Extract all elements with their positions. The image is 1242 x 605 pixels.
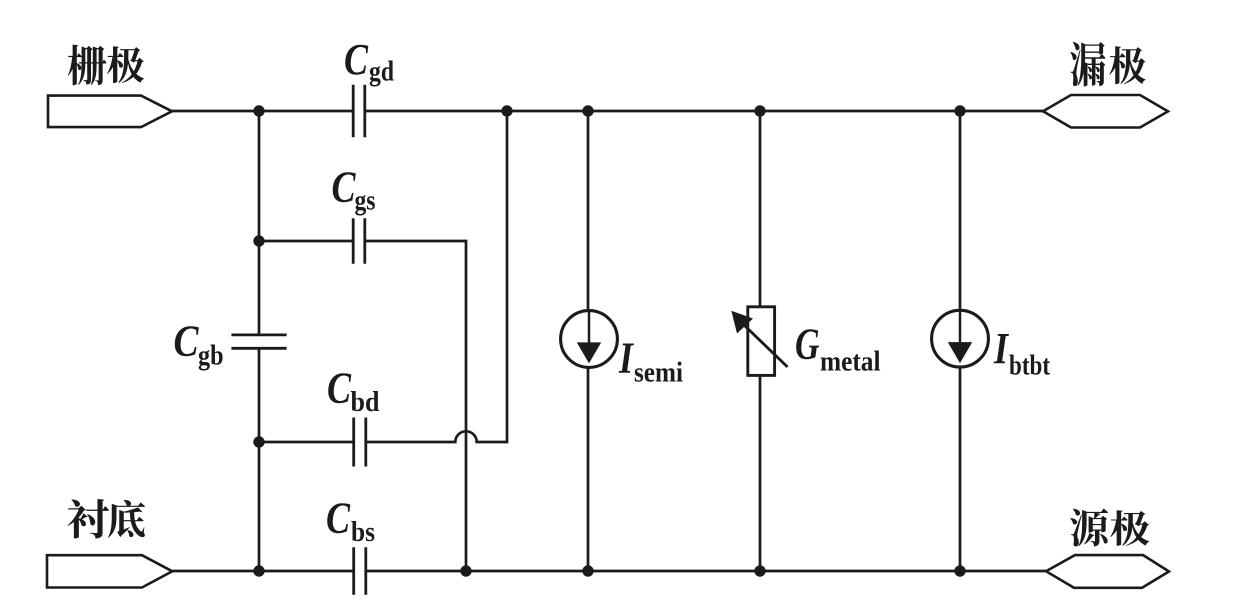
svg-text:C: C: [332, 163, 357, 212]
junction dot top rail / I_btbt: [954, 105, 965, 116]
label I_btbt: [993, 324, 1050, 382]
junction dot top rail / left branch: [253, 105, 264, 116]
wire left branch x=259 (gate to substrate): [258, 111, 261, 571]
junction dot bottom rail / G_metal: [754, 565, 765, 576]
capacitor C_gd: [353, 85, 365, 138]
label 栅极 (gate): [68, 45, 144, 86]
label C_bs: [326, 494, 375, 549]
svg-text:bs: bs: [351, 517, 375, 548]
svg-text:I: I: [993, 324, 1009, 373]
wire G_metal branch x=760: [759, 111, 762, 571]
capacitor C_bs: [354, 547, 366, 595]
svg-text:gb: gb: [198, 341, 224, 372]
terminal pin 源极 (source): [1046, 555, 1169, 588]
resistor G_metal (variable, box with arrow): [731, 307, 787, 376]
junction dot top rail / x=507 riser: [501, 105, 512, 116]
wire I_semi branch x=588: [587, 111, 590, 571]
wire C_bd branch y=442 with crossover hop, riser x=507: [259, 111, 507, 442]
terminal pin 衬底 (substrate): [47, 555, 172, 587]
label C_gb: [174, 317, 224, 372]
label C_gs: [332, 163, 376, 217]
junction dot bottom rail / I_btbt: [954, 565, 965, 576]
svg-text:metal: metal: [820, 347, 881, 378]
junction dot bottom rail / left branch: [253, 565, 264, 576]
capacitor C_gb: [231, 335, 286, 348]
wire top rail (gate to drain): [172, 110, 1043, 113]
wire bottom rail (substrate to source): [172, 570, 1046, 573]
junction dot top rail / I_semi: [582, 105, 593, 116]
current source I_semi: [561, 311, 618, 368]
svg-text:semi: semi: [634, 358, 683, 389]
label C_bd: [327, 364, 380, 419]
label 漏极 (drain): [1070, 42, 1145, 86]
label 衬底 (substrate): [67, 499, 145, 539]
svg-text:C: C: [327, 364, 352, 413]
junction dot bottom rail / x=466: [460, 565, 471, 576]
svg-text:C: C: [326, 494, 351, 543]
junction dot C_gs node: [253, 235, 264, 246]
capacitor C_gs: [353, 218, 365, 264]
junction dot top rail / G_metal: [754, 105, 765, 116]
svg-text:gs: gs: [355, 186, 376, 217]
label G_metal: [795, 320, 881, 378]
junction dot C_bd node: [253, 436, 264, 447]
label I_semi: [618, 334, 683, 389]
terminal pin 栅极 (gate): [48, 96, 172, 128]
svg-text:gd: gd: [369, 57, 394, 88]
capacitor C_bd: [354, 418, 366, 467]
svg-text:C: C: [174, 317, 200, 366]
svg-text:C: C: [344, 35, 369, 84]
svg-text:I: I: [618, 334, 634, 383]
svg-text:btbt: btbt: [1009, 351, 1051, 382]
label C_gd: [344, 35, 394, 88]
label 源极 (source): [1070, 508, 1149, 546]
junction dot bottom rail / I_semi: [582, 565, 593, 576]
wire I_btbt branch x=960: [959, 111, 962, 571]
svg-text:bd: bd: [351, 387, 380, 418]
terminal pin 漏极 (drain): [1043, 95, 1168, 128]
svg-text:G: G: [795, 320, 820, 369]
current source I_btbt: [932, 310, 989, 367]
wire C_gs branch y=241 and down at x=466: [259, 241, 466, 571]
